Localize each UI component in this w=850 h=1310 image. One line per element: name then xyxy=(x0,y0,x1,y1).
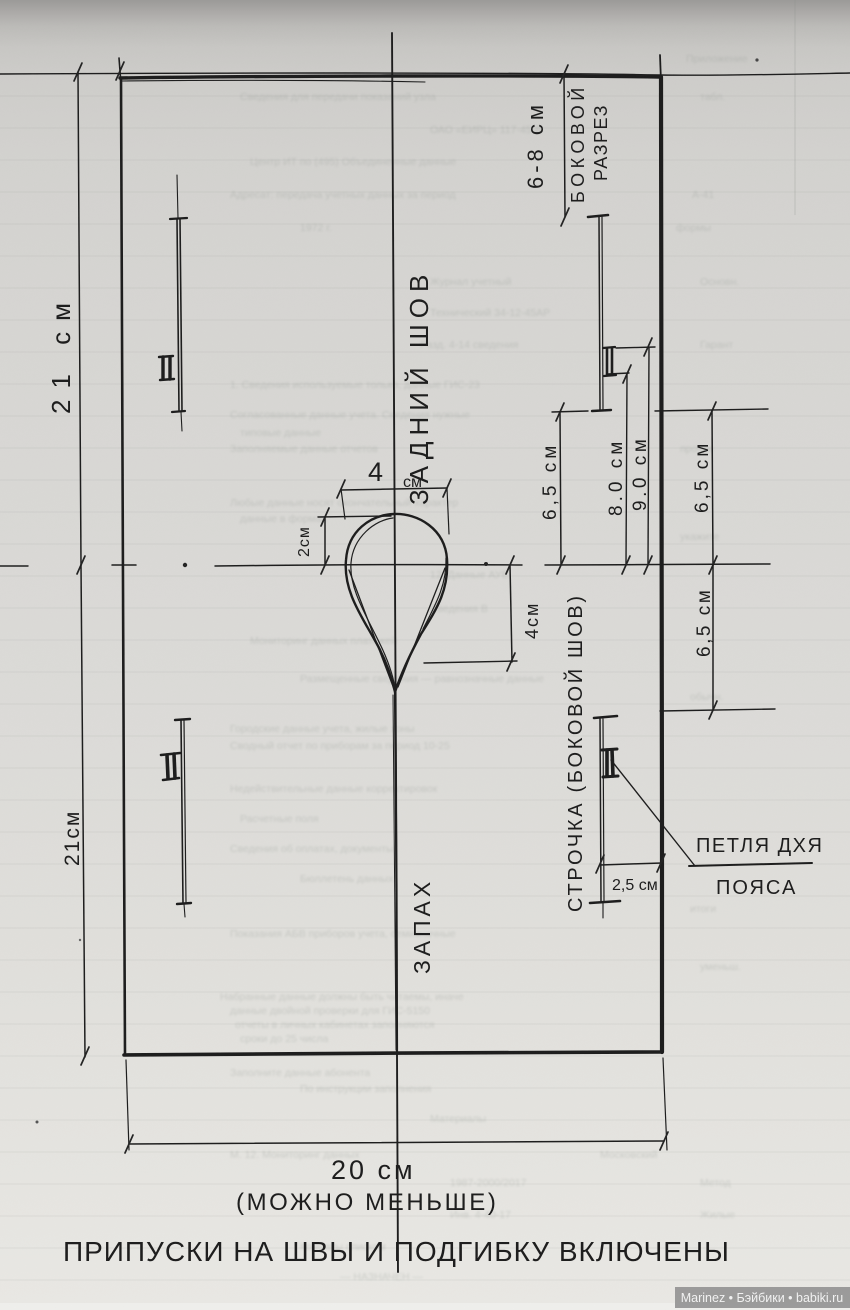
keyhole opening xyxy=(346,514,448,692)
keyhole straight tapers xyxy=(349,570,394,689)
dim 20 cm bottom xyxy=(129,1141,664,1144)
dim 6-8 см side slit xyxy=(564,74,565,217)
dart lower left notch II xyxy=(161,753,180,755)
top extension line full width xyxy=(0,73,850,75)
dim 4 cm top of keyhole xyxy=(341,488,447,490)
corner tick top-right xyxy=(660,55,661,82)
horizontal centre line y=565 xyxy=(0,565,28,567)
pattern rectangle bottom edge xyxy=(124,1052,661,1055)
bottom light strip xyxy=(0,1303,850,1310)
specks xyxy=(36,1121,39,1124)
pattern rectangle left edge xyxy=(121,78,125,1055)
slit notch II xyxy=(603,347,615,348)
dart lower left xyxy=(175,719,190,720)
watermark xyxy=(675,1287,850,1308)
dim 6,5 см inner xyxy=(560,412,561,565)
keyhole stem to hem xyxy=(395,692,397,1054)
centre line dots xyxy=(183,563,187,567)
dim 6,5 см right lower xyxy=(712,565,714,710)
ghost column line xyxy=(794,0,796,215)
pattern rectangle right edge xyxy=(661,77,662,1052)
bottom dim extension lines xyxy=(126,1060,129,1150)
dim 2,5 см xyxy=(600,863,662,865)
dim 4cm right of keyhole xyxy=(510,565,512,662)
dim 21 cm upper left xyxy=(78,72,81,565)
side slit line xyxy=(588,215,608,217)
dim 9.0 см xyxy=(648,348,649,565)
dim 2 cm left of keyhole xyxy=(324,517,326,565)
pattern rectangle top edge xyxy=(120,76,660,78)
dim 6,5 см right upper xyxy=(712,411,713,565)
center fold line xyxy=(392,33,398,1272)
dim 8.0 см xyxy=(626,375,627,565)
dart upper left xyxy=(177,175,178,218)
stitch line xyxy=(594,716,617,718)
stitch notch II bold xyxy=(602,749,617,750)
dim 21 cm lower left xyxy=(81,565,85,1057)
leader line to belt loop xyxy=(611,760,695,866)
corner tick top-left xyxy=(119,58,121,84)
dart upper left notch II xyxy=(159,356,173,357)
